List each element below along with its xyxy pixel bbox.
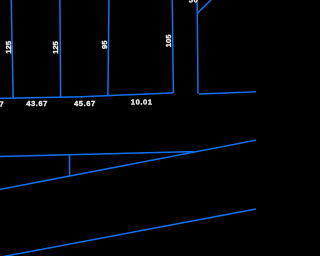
svg-text:10.01: 10.01	[131, 97, 153, 106]
svg-text:57: 57	[0, 99, 4, 108]
svg-text:43.67: 43.67	[26, 99, 48, 108]
svg-text:105: 105	[164, 34, 173, 47]
svg-text:50: 50	[189, 0, 199, 5]
svg-text:45.67: 45.67	[74, 99, 96, 108]
svg-text:125: 125	[4, 40, 13, 53]
svg-text:125: 125	[51, 40, 60, 53]
svg-text:95: 95	[100, 40, 109, 49]
